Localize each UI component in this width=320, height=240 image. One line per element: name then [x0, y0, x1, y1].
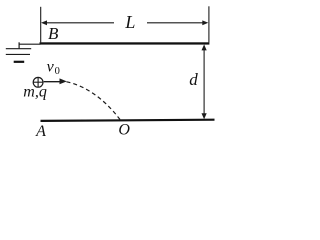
- svg-text:A: A: [35, 123, 46, 140]
- svg-text:m,q: m,q: [23, 84, 47, 101]
- svg-text:B: B: [48, 24, 59, 43]
- svg-text:v: v: [47, 59, 55, 76]
- svg-text:O: O: [118, 122, 130, 139]
- svg-text:0: 0: [55, 66, 60, 77]
- svg-text:L: L: [124, 12, 135, 32]
- svg-text:d: d: [189, 70, 198, 89]
